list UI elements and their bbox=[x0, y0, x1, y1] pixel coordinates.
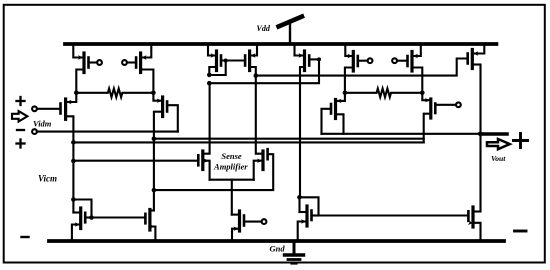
svg-text:Vidm: Vidm bbox=[33, 119, 52, 129]
svg-text:Vout: Vout bbox=[491, 154, 506, 163]
svg-text:Vicm: Vicm bbox=[38, 174, 57, 184]
svg-text:Sense: Sense bbox=[221, 151, 242, 161]
svg-text:Gnd: Gnd bbox=[270, 244, 286, 254]
svg-text:Amplifier: Amplifier bbox=[213, 161, 248, 171]
svg-text:Vdd: Vdd bbox=[257, 24, 271, 33]
